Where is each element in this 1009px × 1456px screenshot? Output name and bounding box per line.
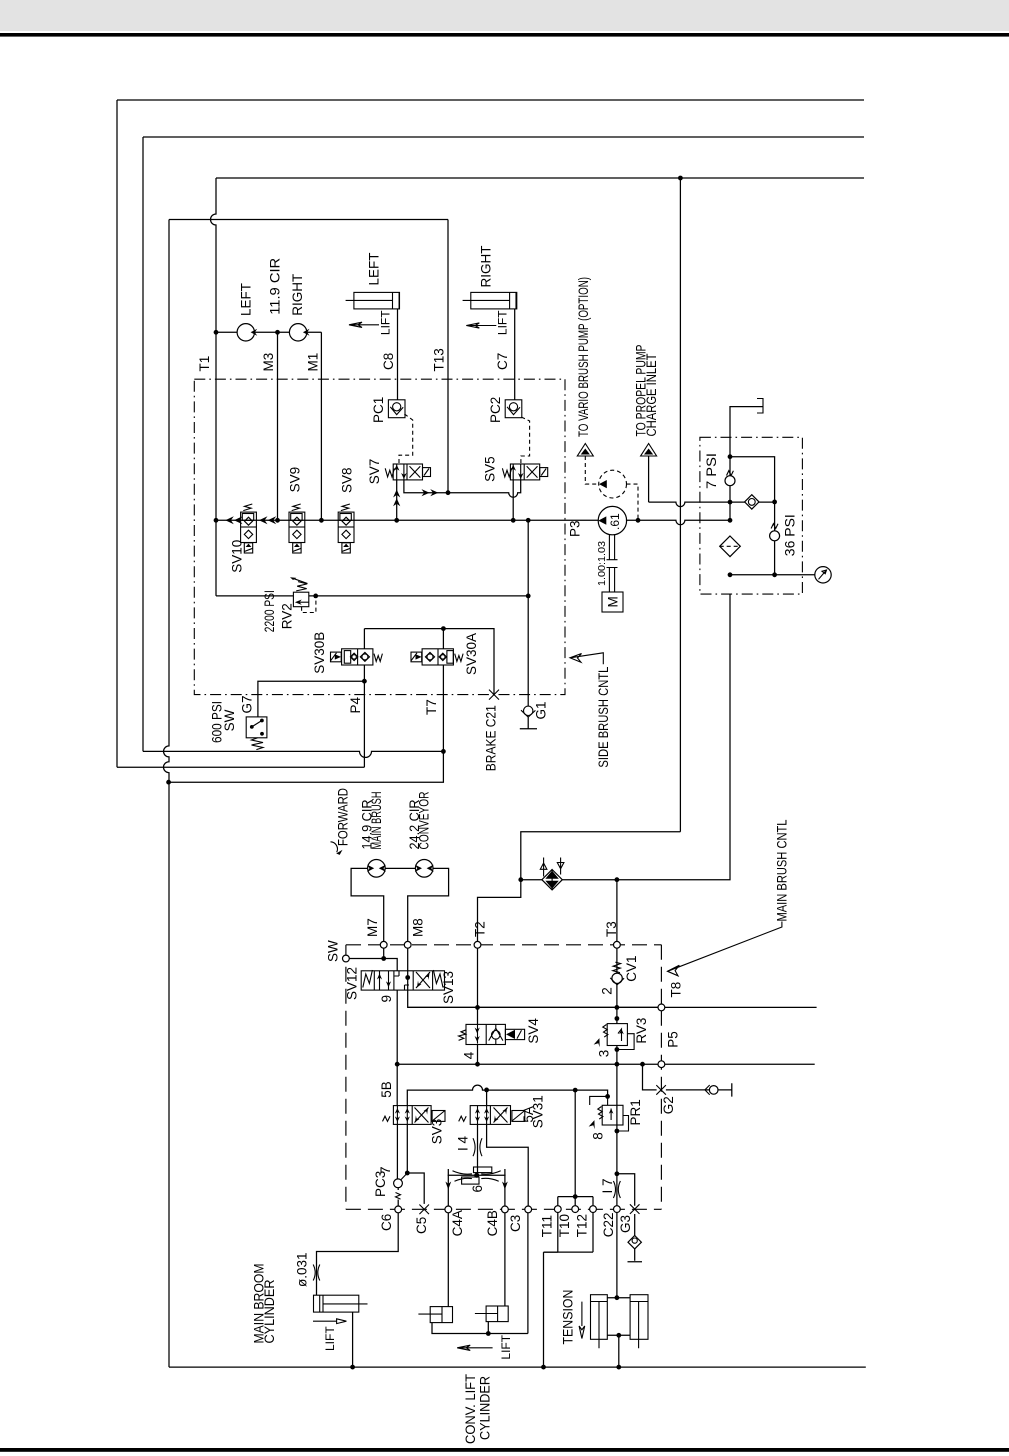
- node junction T13/SV7out: [446, 490, 451, 495]
- svg-text:LEFT: LEFT: [367, 252, 382, 285]
- check G1: [520, 596, 537, 729]
- svg-text:MAIN BRUSH: MAIN BRUSH: [369, 792, 384, 850]
- svg-text:2200 PSI: 2200 PSI: [262, 590, 277, 632]
- relief RV3: [594, 1007, 635, 1064]
- wire C4A down: [447, 1213, 449, 1307]
- valve SV9 cartridge: [289, 504, 305, 553]
- svg-text:C6: C6: [379, 1214, 394, 1231]
- check G2: [705, 1083, 732, 1096]
- node junction PC3 pilot: [405, 1171, 410, 1176]
- port T2: [474, 941, 481, 948]
- orifice .031: [313, 1265, 320, 1281]
- svg-text:TENSION: TENSION: [560, 1290, 575, 1345]
- svg-text:RV2: RV2: [280, 603, 295, 629]
- arrowheads main line pair1: [225, 516, 242, 524]
- valve SV7: [385, 464, 430, 480]
- wire bus line: [169, 1366, 866, 1368]
- wire SV7 out to T13: [404, 480, 521, 497]
- svg-text:M: M: [605, 596, 620, 607]
- svg-text:11.9 CIR: 11.9 CIR: [267, 258, 282, 315]
- svg-text:G3: G3: [618, 1215, 633, 1233]
- cylinder C8: [346, 292, 400, 309]
- svg-text:CONV. LIFT: CONV. LIFT: [463, 1374, 478, 1444]
- wire T2 column: [477, 948, 479, 1025]
- check 7 PSI: [725, 471, 735, 486]
- cylinder tension left: [591, 1295, 608, 1349]
- svg-text:CONVEYOR: CONVEYOR: [417, 791, 432, 849]
- relief RV2: [216, 577, 531, 612]
- wire vertical x216: [211, 178, 217, 596]
- svg-text:I 4: I 4: [455, 1135, 470, 1151]
- page header gray band: [0, 0, 1009, 31]
- arrow LIFT C8: [349, 322, 379, 327]
- wire 5A branch down: [486, 1090, 488, 1106]
- svg-text:PC1: PC1: [371, 397, 386, 423]
- svg-text:8: 8: [590, 1132, 605, 1140]
- wire SW to valve: [349, 959, 397, 971]
- svg-text:BRAKE C21: BRAKE C21: [484, 705, 499, 771]
- svg-text:T7: T7: [424, 699, 439, 715]
- valve SV10 cartridge: [241, 504, 257, 553]
- check G3: [628, 1214, 643, 1262]
- valve SV4: [459, 1024, 525, 1064]
- wire pump bracket: [351, 868, 449, 941]
- check 36 PSI: [770, 524, 780, 541]
- node junction conveyor rod: [486, 1331, 491, 1336]
- node junction gauge/36psi: [772, 572, 777, 577]
- check mid diamond: [745, 495, 759, 509]
- svg-text:PC2: PC2: [488, 397, 503, 423]
- node junction tension/bus: [541, 1365, 546, 1370]
- node junction feed left: [518, 877, 523, 882]
- svg-text:SW: SW: [326, 940, 341, 962]
- wire tension supply: [544, 1252, 558, 1367]
- node junction gauge/filtercol: [728, 572, 733, 577]
- wire C7 to PC2: [514, 309, 516, 400]
- ports T11 T10 T12 bracket: [544, 1194, 594, 1252]
- wire gauge line: [730, 574, 815, 576]
- motor LEFT: [237, 324, 257, 341]
- svg-text:T13: T13: [432, 348, 447, 371]
- port T8: [658, 1004, 665, 1011]
- svg-text:SV7: SV7: [367, 459, 382, 485]
- port C4A: [445, 1206, 452, 1213]
- svg-text:.61: .61: [608, 513, 622, 530]
- node junction M7/SW: [381, 956, 386, 961]
- port T3: [614, 941, 621, 948]
- svg-text:SV13: SV13: [441, 971, 456, 1004]
- svg-text:G2: G2: [661, 1096, 676, 1114]
- page footer rule: [0, 1448, 1009, 1452]
- svg-text:LEFT: LEFT: [238, 283, 253, 316]
- svg-text:2: 2: [600, 987, 615, 995]
- wire M7 down: [383, 948, 385, 958]
- svg-text:5B: 5B: [379, 1081, 394, 1098]
- wire top rail 1: [117, 99, 864, 101]
- svg-text:3: 3: [597, 1050, 612, 1058]
- svg-text:SV10: SV10: [230, 540, 245, 573]
- wire SV5 feed with hop: [512, 480, 514, 520]
- svg-text:C4B: C4B: [485, 1210, 500, 1236]
- svg-text:FORWARD: FORWARD: [336, 788, 351, 846]
- svg-text:SV8: SV8: [340, 467, 355, 493]
- wire M3: [277, 332, 279, 520]
- wire line2 P4 return: [117, 766, 364, 768]
- leader main brush: [668, 922, 782, 976]
- node junction SV30A top: [441, 626, 446, 631]
- svg-text:SW: SW: [222, 709, 237, 731]
- symbol connection triangle vario: [577, 444, 593, 457]
- wire SV7 feed arrows: [396, 480, 398, 520]
- svg-text:M3: M3: [261, 353, 276, 372]
- svg-text:C3: C3: [508, 1215, 523, 1232]
- svg-text:CHARGE INLET: CHARGE INLET: [644, 354, 659, 437]
- arrow TENSION: [579, 1302, 585, 1339]
- node junction bypass right: [772, 500, 777, 505]
- svg-text:SV30B: SV30B: [312, 632, 327, 674]
- arrowheads main line pair2: [259, 516, 276, 524]
- check CV1: [610, 948, 624, 1007]
- manifold box dashed lower bottom edge: [346, 1208, 662, 1210]
- node junction M3/main: [275, 518, 280, 523]
- manifold box dash-dot upper: [194, 379, 565, 694]
- port T12: [590, 1206, 597, 1213]
- node junction G1/main: [526, 518, 531, 523]
- svg-text:G7: G7: [240, 695, 255, 713]
- port T10: [572, 1206, 579, 1213]
- arrow LIFT broom: [313, 1319, 346, 1324]
- svg-text:P4: P4: [348, 696, 363, 713]
- pilot dashed vario: [585, 456, 598, 484]
- cylinder conveyor A: [418, 1307, 452, 1323]
- svg-text:ø.031: ø.031: [295, 1252, 310, 1287]
- node junction 7psi top: [728, 454, 733, 459]
- pump main brush: [367, 860, 386, 878]
- port P5: [658, 1061, 665, 1068]
- pilot dashed PC2-SV5: [521, 417, 530, 464]
- filter diamond: [720, 536, 741, 557]
- pump conveyor: [415, 860, 434, 878]
- node junction SV7 feed: [394, 518, 399, 523]
- wire x680 elbow to feed: [521, 832, 681, 880]
- wire G2 out: [666, 1089, 709, 1091]
- svg-text:CYLINDER: CYLINDER: [478, 1376, 493, 1440]
- orifice I7: [613, 1174, 620, 1206]
- cylinder main broom: [314, 1295, 368, 1312]
- node junction M3: [275, 330, 280, 335]
- svg-text:C5: C5: [414, 1217, 429, 1234]
- svg-text:SV4: SV4: [526, 1018, 541, 1044]
- wire main pressure line: [216, 519, 600, 521]
- motor RIGHT: [289, 324, 309, 341]
- wire left vertical x169: [164, 220, 170, 1368]
- valve SV5: [502, 464, 547, 480]
- svg-text:SV31: SV31: [531, 1095, 546, 1128]
- svg-text:LIFT: LIFT: [496, 310, 510, 335]
- node junction pump/filtercol: [728, 518, 733, 523]
- svg-text:T1: T1: [197, 356, 212, 372]
- valve SV12 SV13 block: [361, 970, 444, 990]
- svg-text:SV5: SV5: [483, 456, 498, 482]
- node junction charge/filtercol: [728, 500, 733, 505]
- node junction 5A branch: [484, 1088, 489, 1093]
- wire G2 elbow: [643, 1064, 657, 1090]
- wire C4B down: [504, 1213, 506, 1306]
- pump circuit FORWARD arc: [331, 842, 338, 852]
- valve SV30A: [411, 629, 463, 752]
- arrow LIFT C7: [466, 323, 496, 328]
- node junction I7 top: [615, 1171, 620, 1176]
- wire SV31 right output: [487, 1124, 529, 1206]
- svg-text:PR1: PR1: [628, 1099, 643, 1125]
- pump P3: [598, 506, 626, 534]
- valve SV31: [459, 1106, 525, 1125]
- wire port9 down: [396, 990, 398, 1106]
- node junction T2/line1007: [475, 1005, 480, 1010]
- svg-text:LIFT: LIFT: [499, 1334, 513, 1359]
- svg-text:4: 4: [462, 1051, 477, 1059]
- svg-text:CV1: CV1: [624, 955, 639, 981]
- port C22: [614, 1206, 621, 1213]
- shaft P3 motor: [607, 534, 618, 592]
- wire vertical x680: [679, 178, 681, 832]
- svg-text:T12: T12: [575, 1214, 590, 1237]
- wire M8 through valve: [408, 948, 662, 1007]
- wire C22-G3 loop: [617, 1174, 635, 1206]
- check PC3: [394, 1124, 408, 1206]
- node junction rail3/x680: [678, 176, 683, 181]
- wire 5B5A feed line: [407, 1085, 607, 1106]
- leader side brush: [570, 653, 603, 664]
- port C5 plug: [419, 1205, 429, 1215]
- svg-text:PC3: PC3: [373, 1171, 388, 1197]
- relief PR1: [589, 1064, 629, 1174]
- node junction x169/line3: [166, 780, 171, 785]
- node junction broom/bus: [350, 1365, 355, 1370]
- svg-text:T10: T10: [557, 1214, 572, 1237]
- svg-text:M1: M1: [306, 353, 321, 372]
- svg-text:36 PSI: 36 PSI: [782, 514, 797, 556]
- svg-text:P3: P3: [567, 520, 582, 537]
- svg-text:6: 6: [470, 1185, 485, 1193]
- orifice I4: [473, 1124, 482, 1175]
- svg-text:LIFT: LIFT: [323, 1326, 337, 1351]
- svg-text:T2: T2: [473, 921, 488, 937]
- port G2 plug: [656, 1085, 666, 1095]
- wire SV30 bracket: [364, 629, 494, 695]
- port M7: [380, 941, 387, 948]
- wire T2 feed elbow: [478, 880, 521, 942]
- cylinder conveyor B: [475, 1306, 508, 1322]
- valve SV3: [383, 1106, 446, 1125]
- svg-text:M8: M8: [410, 918, 425, 937]
- wire broom cylinder to bus: [352, 1312, 354, 1367]
- svg-text:SV9: SV9: [288, 467, 303, 493]
- cylinder C7: [463, 292, 517, 309]
- switch 600 PSI SW: [246, 717, 267, 750]
- svg-text:P5: P5: [666, 1031, 681, 1048]
- svg-text:RIGHT: RIGHT: [290, 274, 305, 316]
- wire left vertical x117: [116, 100, 118, 767]
- svg-text:C8: C8: [381, 353, 396, 370]
- wire M1: [320, 332, 322, 520]
- wire C8 to PC1: [397, 309, 399, 400]
- pump vario dashed circle: [599, 470, 627, 498]
- wire P4 down: [363, 681, 365, 767]
- wire top rail 4 with hop over x216: [169, 219, 448, 221]
- symbol connection triangle propel: [641, 444, 657, 457]
- port C6: [395, 1206, 402, 1213]
- node junction port9/line: [395, 1062, 400, 1067]
- svg-text:7 PSI: 7 PSI: [704, 453, 719, 489]
- wire G1 branch: [527, 520, 529, 596]
- svg-text:LIFT: LIFT: [378, 310, 392, 335]
- tank symbol top right: [757, 399, 763, 414]
- node junction T10 drain: [573, 1088, 578, 1093]
- svg-text:9: 9: [379, 995, 394, 1003]
- svg-text:T8: T8: [669, 982, 684, 998]
- wire propel to charge line: [648, 456, 650, 502]
- wire charge line: [649, 502, 775, 507]
- node junction feed T3: [615, 877, 620, 882]
- check PC1: [388, 400, 405, 418]
- gauge: [815, 567, 831, 583]
- port C3: [525, 1206, 532, 1213]
- wire 7psi to tank: [730, 407, 763, 521]
- wire bypass top: [730, 457, 775, 575]
- wire SV3 right output: [407, 1124, 424, 1204]
- svg-text:T3: T3: [604, 921, 619, 937]
- svg-text:1.00:1.03: 1.00:1.03: [597, 541, 608, 586]
- wire top rail 2: [143, 136, 864, 138]
- wire T7 elbow: [169, 751, 444, 782]
- wire T3 feed: [616, 880, 618, 942]
- arrow LIFT conveyor: [457, 1345, 492, 1350]
- wire tension links: [607, 1298, 630, 1367]
- wire line P5: [397, 1063, 815, 1065]
- manifold box dashed lower top edge: [346, 944, 661, 946]
- check PC2: [505, 400, 522, 418]
- node junction tension top: [615, 1295, 620, 1300]
- valve SV30B: [331, 629, 383, 682]
- node junction T7/line1: [441, 749, 446, 754]
- svg-text:TO VARIO BRUSH PUMP (OPTION): TO VARIO BRUSH PUMP (OPTION): [576, 277, 591, 437]
- wire top rail 3: [216, 177, 864, 179]
- port C21 plug: [489, 690, 499, 700]
- wire left vertical x143: [142, 137, 144, 751]
- wire line1 T7 return: [143, 751, 443, 757]
- wire C6 to broom cylinder: [317, 1213, 399, 1295]
- svg-text:SIDE BRUSH CNTL: SIDE BRUSH CNTL: [596, 666, 611, 767]
- node junction T3/line1007: [615, 1005, 620, 1010]
- node junction vario outlet: [636, 518, 641, 523]
- port SW: [343, 955, 350, 962]
- node junction tension/bus2: [616, 1365, 621, 1370]
- wire C22 to tension: [616, 1213, 618, 1298]
- node junction G7/P4: [362, 679, 367, 684]
- arrowheads SV7 out: [422, 489, 439, 496]
- motor M box: [602, 592, 623, 612]
- svg-text:M7: M7: [365, 918, 380, 937]
- node junction SV5 feed: [511, 518, 516, 523]
- wire G7 branch: [258, 681, 365, 717]
- node junction M1/main: [319, 518, 324, 523]
- port G3 plug: [630, 1204, 640, 1214]
- svg-text:SV12: SV12: [345, 967, 360, 1000]
- manifold box dashed lower left edge: [345, 945, 347, 1210]
- wire T10 drain column: [574, 1090, 576, 1197]
- port T11: [554, 1206, 561, 1213]
- cylinder tension right: [630, 1295, 648, 1349]
- svg-text:G1: G1: [534, 701, 549, 719]
- svg-text:RV3: RV3: [634, 1018, 649, 1044]
- divider 6: [445, 1167, 507, 1206]
- pilot dashed vario outlet: [627, 484, 639, 520]
- wire pump row: [216, 331, 321, 333]
- node junction x216/pumprow: [214, 330, 219, 335]
- svg-text:I 7: I 7: [600, 1178, 615, 1193]
- svg-text:RIGHT: RIGHT: [478, 245, 493, 287]
- svg-text:C7: C7: [495, 353, 510, 370]
- svg-text:SV3: SV3: [430, 1119, 445, 1145]
- node junction center valve: [405, 975, 410, 980]
- svg-text:SV30A: SV30A: [464, 633, 479, 675]
- node junction G2/lineP5: [640, 1062, 645, 1067]
- wire filter column down: [521, 594, 730, 880]
- page header rule: [0, 33, 1009, 37]
- port M8: [404, 941, 411, 948]
- port C4B: [502, 1206, 509, 1213]
- divider diamond: [540, 858, 564, 890]
- manifold box dashed lower right edge: [660, 945, 662, 1210]
- node junction T3/lineP5: [615, 1062, 620, 1067]
- svg-text:C4A: C4A: [450, 1210, 465, 1236]
- svg-text:T11: T11: [540, 1215, 555, 1237]
- svg-text:C22: C22: [601, 1212, 616, 1237]
- node junction tension bottom: [616, 1333, 621, 1338]
- wire line T8 horizontals: [408, 1006, 817, 1008]
- node junction T2/lineP5: [475, 1062, 480, 1067]
- pilot dashed PC1-SV7: [399, 414, 413, 464]
- manifold box dash-dot filter: [700, 437, 803, 594]
- valve SV8 cartridge: [338, 504, 354, 553]
- wire pump outlet to filter block: [626, 520, 730, 525]
- node junction x216/main: [214, 518, 219, 523]
- svg-text:CYLINDER: CYLINDER: [262, 1279, 277, 1343]
- wire vertical T13 x448: [447, 220, 449, 493]
- svg-text:MAIN BRUSH CNTL: MAIN BRUSH CNTL: [775, 819, 790, 921]
- wire conveyor rod side: [432, 1213, 528, 1334]
